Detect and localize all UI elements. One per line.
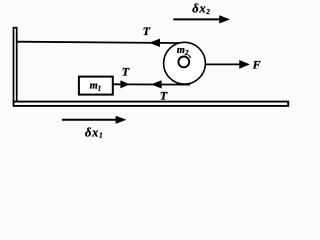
svg-text:T: T (160, 88, 168, 102)
svg-text:T: T (122, 64, 130, 78)
svg-text:T: T (143, 24, 151, 38)
force string F (205, 63, 240, 65)
svg-text:F: F (252, 58, 261, 72)
displacement arrow dx2 (top) (173, 18, 220, 20)
top string (wall to pulley top) (17, 42, 190, 43)
tension arrowhead T on block (pointing right) (120, 80, 129, 88)
pulley hub (178, 57, 189, 68)
wall (14, 28, 17, 102)
pulley m2 (cylinder) (164, 42, 206, 84)
stray tick near hub (189, 55, 191, 58)
displacement arrow dx1 (bottom) (62, 119, 116, 121)
background paper (0, 0, 309, 144)
block m1 (79, 77, 113, 95)
force arrowhead F (pointing right) (239, 60, 250, 69)
tension arrowhead T top (pointing left) (149, 39, 160, 47)
floor (14, 102, 289, 106)
tension arrowhead T on pulley bottom (pointing left) (151, 80, 162, 88)
bottom string (block to pulley bottom) (113, 83, 190, 85)
